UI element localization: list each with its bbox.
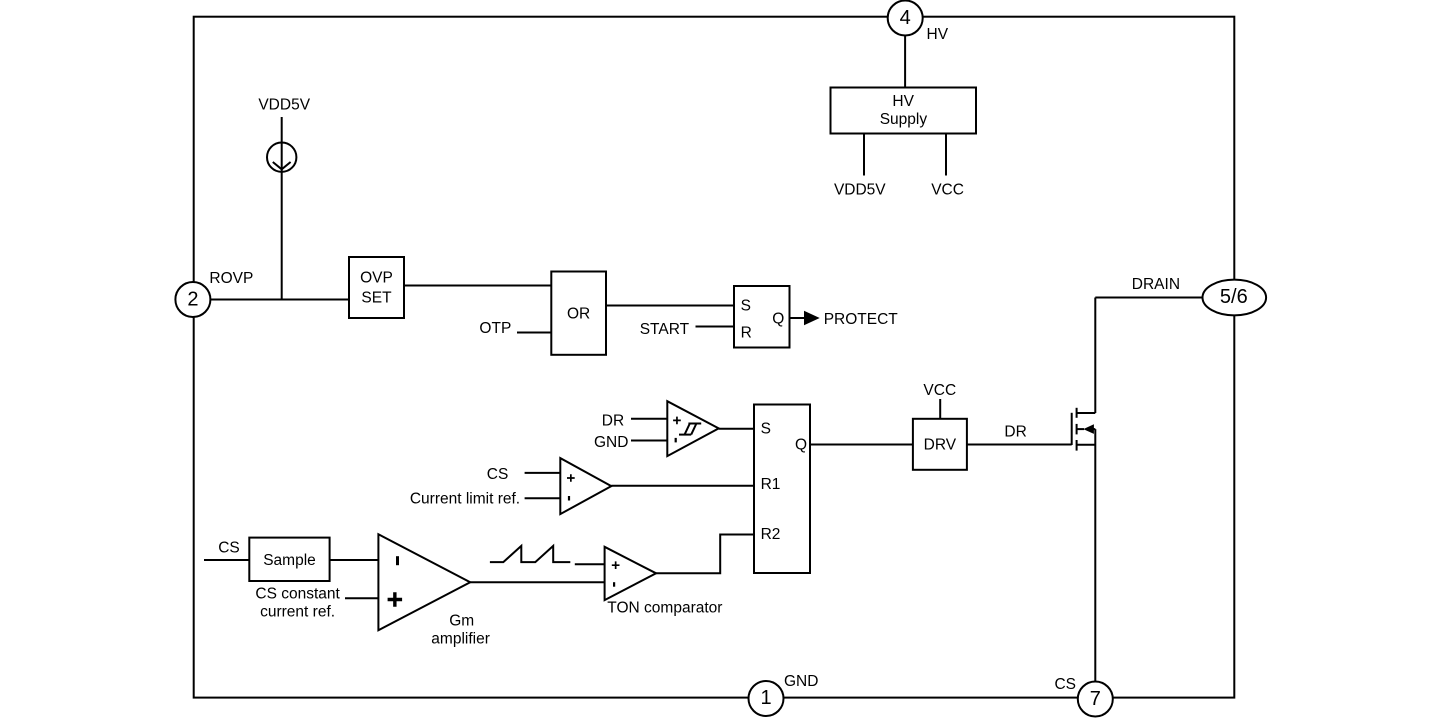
svg-text:OR: OR: [567, 306, 590, 323]
svg-text:1: 1: [760, 687, 771, 709]
svg-text:GND: GND: [784, 673, 818, 690]
svg-text:Q: Q: [795, 437, 807, 454]
svg-text:Q: Q: [772, 311, 784, 328]
svg-text:DR: DR: [602, 412, 624, 429]
svg-text:CS: CS: [218, 540, 240, 557]
svg-text:Current limit ref.: Current limit ref.: [410, 491, 520, 508]
svg-text:VCC: VCC: [931, 181, 964, 198]
svg-text:VDD5V: VDD5V: [258, 97, 310, 114]
svg-text:2: 2: [187, 288, 198, 310]
svg-text:DRV: DRV: [924, 437, 957, 454]
svg-text:TON comparator: TON comparator: [607, 600, 722, 617]
svg-text:S: S: [761, 421, 771, 438]
svg-text:SET: SET: [361, 290, 392, 307]
svg-text:R1: R1: [761, 476, 781, 493]
svg-text:Gm: Gm: [449, 613, 474, 630]
svg-text:PROTECT: PROTECT: [824, 311, 899, 328]
svg-text:4: 4: [900, 7, 911, 29]
svg-text:CS: CS: [487, 466, 509, 483]
svg-text:ROVP: ROVP: [209, 270, 253, 287]
svg-text:Sample: Sample: [263, 552, 316, 569]
svg-text:VDD5V: VDD5V: [834, 181, 886, 198]
svg-text:7: 7: [1090, 688, 1101, 710]
svg-text:CS constant: CS constant: [255, 585, 340, 602]
svg-text:CS: CS: [1054, 676, 1076, 693]
svg-text:HV: HV: [892, 93, 914, 110]
svg-text:OTP: OTP: [479, 320, 511, 337]
svg-text:DR: DR: [1004, 423, 1026, 440]
svg-text:VCC: VCC: [923, 382, 956, 399]
svg-text:amplifier: amplifier: [431, 631, 490, 648]
svg-text:START: START: [640, 321, 690, 338]
svg-text:Supply: Supply: [880, 111, 928, 128]
svg-text:OVP: OVP: [360, 270, 393, 287]
svg-text:R: R: [741, 325, 752, 342]
svg-text:GND: GND: [594, 434, 628, 451]
svg-text:S: S: [741, 298, 751, 315]
svg-text:DRAIN: DRAIN: [1132, 276, 1180, 293]
svg-text:HV: HV: [927, 26, 949, 43]
svg-text:5/6: 5/6: [1220, 286, 1248, 308]
svg-text:R2: R2: [761, 526, 781, 543]
svg-text:current ref.: current ref.: [260, 603, 335, 620]
